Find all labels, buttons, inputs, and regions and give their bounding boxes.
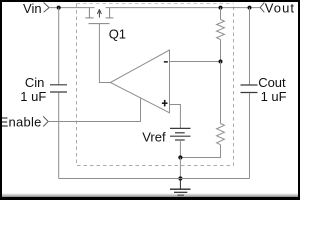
svg-text:Cin: Cin xyxy=(25,75,45,90)
port Vin chevron xyxy=(44,3,50,13)
svg-text:Vin: Vin xyxy=(23,1,42,16)
op-amp non-inverting input mark (+) xyxy=(162,100,168,107)
capacitor Cout xyxy=(241,8,258,179)
junction Vin/Cin xyxy=(57,6,61,10)
IC boundary top edge (faint) xyxy=(77,3,234,5)
transistor Q1 (PMOS pass element) xyxy=(85,8,113,24)
port Vout chevron xyxy=(260,2,264,12)
junction rail/R1 xyxy=(219,6,223,10)
junction ground bus xyxy=(178,176,182,180)
wire non-inverting input to Vref xyxy=(170,105,181,129)
wire Enable to amplifier xyxy=(48,98,140,122)
capacitor Cin xyxy=(50,8,67,179)
wire Vref to ground node xyxy=(179,140,181,158)
svg-text:1 uF: 1 uF xyxy=(261,89,287,104)
svg-text:1 uF: 1 uF xyxy=(20,89,46,104)
resistor R1 (upper divider) xyxy=(217,8,225,62)
op-amp U1 (error amplifier, points left) xyxy=(110,50,169,113)
resistor R2 (lower divider) xyxy=(180,62,224,158)
junction rail/Cout xyxy=(248,6,252,10)
node FB junction xyxy=(219,60,223,64)
ground symbol xyxy=(170,179,191,196)
svg-text:Vref: Vref xyxy=(142,129,166,144)
wire Vin rail (right segment to Vout) xyxy=(106,7,261,9)
op-amp inverting input mark (-) xyxy=(164,61,168,63)
svg-text:Vout: Vout xyxy=(265,1,295,16)
IC boundary dashed box xyxy=(77,4,234,166)
wire ground bus xyxy=(59,178,250,180)
voltage reference Vref (battery) xyxy=(170,128,191,140)
wire inverting input to feedback node xyxy=(170,61,221,63)
wire Q1 gate / error-amp output xyxy=(99,24,110,83)
wire Vin rail (left segment) xyxy=(49,7,94,9)
port Enable chevron xyxy=(43,116,48,126)
svg-text:Cout: Cout xyxy=(258,75,286,90)
svg-text:Enable: Enable xyxy=(0,115,42,130)
junction Vref/R2 xyxy=(178,155,182,159)
wire ground node down xyxy=(179,158,181,179)
svg-text:Q1: Q1 xyxy=(109,26,126,41)
